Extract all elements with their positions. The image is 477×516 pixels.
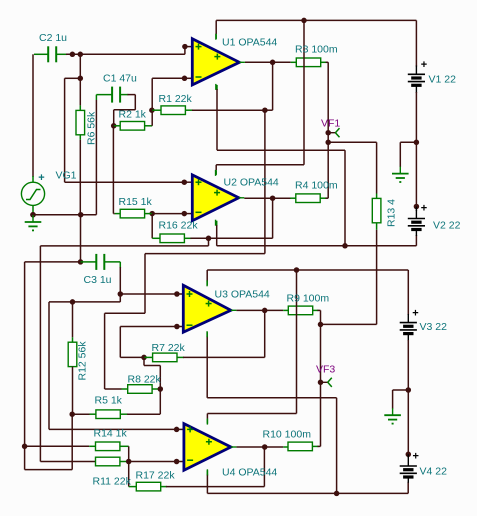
svg-text:R1 22k: R1 22k <box>159 93 193 105</box>
svg-text:R7 22k: R7 22k <box>152 342 186 354</box>
svg-text:C2 1u: C2 1u <box>39 32 67 44</box>
svg-text:+: + <box>421 59 427 71</box>
svg-text:R11 22k: R11 22k <box>93 476 132 488</box>
svg-text:R3 100m: R3 100m <box>295 43 338 55</box>
svg-text:R2 1k: R2 1k <box>119 109 147 121</box>
svg-text:V2 22: V2 22 <box>433 219 461 231</box>
svg-text:U3 OPA544: U3 OPA544 <box>215 288 270 300</box>
svg-text:R14 1k: R14 1k <box>94 427 128 439</box>
svg-text:+: + <box>412 308 418 320</box>
svg-text:VF1: VF1 <box>321 117 340 129</box>
svg-text:R5 1k: R5 1k <box>95 394 123 406</box>
svg-text:U2 OPA544: U2 OPA544 <box>224 176 279 188</box>
svg-text:R6 56k: R6 56k <box>86 111 98 145</box>
svg-text:V4 22: V4 22 <box>420 465 448 477</box>
svg-text:U1 OPA544: U1 OPA544 <box>222 36 277 48</box>
svg-text:+: + <box>421 203 427 215</box>
svg-text:+: + <box>413 451 419 463</box>
svg-text:R12 56k: R12 56k <box>77 341 89 381</box>
svg-text:R17 22k: R17 22k <box>136 469 176 481</box>
svg-text:VF3: VF3 <box>316 363 335 375</box>
svg-text:R15 1k: R15 1k <box>119 196 153 208</box>
svg-text:R9 100m: R9 100m <box>287 292 330 304</box>
svg-text:+: + <box>38 172 44 184</box>
svg-text:V3 22: V3 22 <box>420 321 448 333</box>
svg-text:R13 4: R13 4 <box>386 199 398 227</box>
svg-text:V1 22: V1 22 <box>429 73 457 85</box>
svg-text:R10 100m: R10 100m <box>263 428 312 440</box>
svg-text:C3 1u: C3 1u <box>84 274 112 286</box>
svg-text:VG1: VG1 <box>56 169 77 181</box>
svg-text:R16 22k: R16 22k <box>159 220 199 232</box>
svg-text:R8 22k: R8 22k <box>128 374 162 386</box>
svg-text:C1 47u: C1 47u <box>103 73 137 85</box>
svg-text:U4 OPA544: U4 OPA544 <box>222 466 277 478</box>
svg-text:R4 100m: R4 100m <box>295 179 338 191</box>
